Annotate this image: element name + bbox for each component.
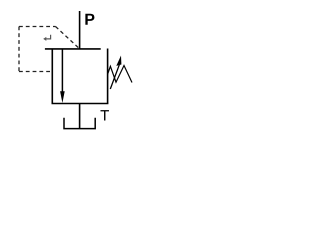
pilot line dashed top edge: [19, 26, 56, 28]
flow path arrow shaft: [61, 49, 63, 92]
tank symbol: [64, 118, 95, 129]
adjustment arrow shaft: [110, 65, 119, 89]
port T line: [79, 104, 81, 129]
cursor return-arrow glyph: [43, 35, 50, 41]
flow path arrowhead: [60, 91, 65, 103]
pilot line dashed left edge: [18, 27, 20, 72]
valve body bottom edge: [52, 103, 109, 105]
valve body left edge: [51, 49, 53, 104]
pilot line dashed diagonal to P junction: [56, 27, 80, 49]
valve body top edge (offset): [45, 48, 101, 50]
adjustment arrowhead: [116, 56, 121, 66]
label P: [85, 14, 94, 25]
valve body right edge: [107, 49, 109, 104]
pilot line dashed bottom edge to valve body: [19, 71, 52, 73]
label T: [100, 110, 108, 120]
port P supply line: [79, 11, 81, 49]
spring zigzag: [108, 66, 133, 83]
